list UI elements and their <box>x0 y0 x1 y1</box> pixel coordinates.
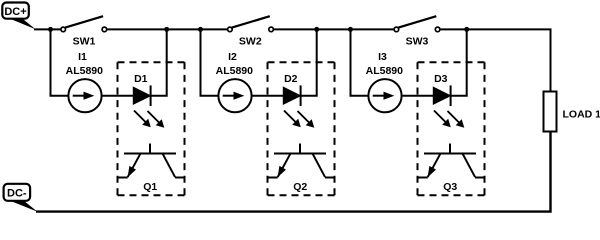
current source I1 AL5890 <box>68 79 101 112</box>
net flag DC- <box>4 184 38 212</box>
svg-text:LOAD 1: LOAD 1 <box>563 109 600 121</box>
svg-text:D2: D2 <box>284 73 298 85</box>
dashed module outline around D2 and Q2 <box>268 62 335 195</box>
svg-text:I1: I1 <box>78 51 87 63</box>
wire D1 cathode up to top rail <box>151 29 167 95</box>
wire from top rail down to I2 input <box>201 29 219 95</box>
svg-text:SW2: SW2 <box>239 36 262 48</box>
transistor Q2 <box>268 144 334 178</box>
svg-text:I3: I3 <box>378 51 387 63</box>
wire top rail: SW1 to SW2 <box>107 28 228 30</box>
junction: rail / I2 input <box>198 27 203 32</box>
svg-text:SW1: SW1 <box>73 36 96 48</box>
svg-text:Q1: Q1 <box>143 181 157 193</box>
switch SW2 <box>228 16 274 32</box>
dashed module outline around D3 and Q3 <box>418 62 485 195</box>
light emission arrows from D1 to Q1 <box>134 111 164 128</box>
svg-text:AL5890: AL5890 <box>216 65 254 77</box>
junction: rail / I3 input <box>348 27 353 32</box>
light emission arrows from D3 to Q3 <box>434 111 464 128</box>
wire I1 output to D1 anode <box>102 95 134 97</box>
junction: D3 cathode / rail <box>464 27 469 32</box>
transistor Q1 <box>118 144 184 178</box>
wire I2 output to D2 anode <box>252 95 284 97</box>
svg-text:Q3: Q3 <box>443 181 457 193</box>
switch SW3 <box>394 16 440 32</box>
junction: DC+ rail / I1 input <box>48 27 53 32</box>
wire LOAD 1 bottom to DC- rail <box>36 132 551 212</box>
LED D3 <box>434 85 451 106</box>
junction: D1 cathode / rail <box>164 27 169 32</box>
current source I2 AL5890 <box>218 79 251 112</box>
transistor Q3 <box>418 144 484 178</box>
dashed module outline around D1 and Q1 <box>118 62 185 195</box>
wire from top rail down to I1 input <box>51 29 69 95</box>
wire I3 output to D3 anode <box>402 95 434 97</box>
wire from top rail down to I3 input <box>351 29 369 95</box>
resistor LOAD 1 <box>544 92 557 132</box>
svg-text:D3: D3 <box>434 73 448 85</box>
wire top rail: SW3 to LOAD 1, down right side <box>440 29 551 91</box>
junction: D2 cathode / rail <box>314 27 319 32</box>
svg-text:DC-: DC- <box>7 188 27 200</box>
current source I3 AL5890 <box>368 79 401 112</box>
wire top rail: DC+ to SW1 <box>34 28 61 30</box>
switch SW1 <box>61 16 107 32</box>
svg-text:AL5890: AL5890 <box>366 65 404 77</box>
wire D3 cathode up to top rail <box>451 29 467 95</box>
svg-text:I2: I2 <box>228 51 237 63</box>
svg-text:Q2: Q2 <box>293 181 307 193</box>
svg-text:DC+: DC+ <box>4 6 26 18</box>
svg-text:D1: D1 <box>134 73 148 85</box>
LED D2 <box>284 85 301 106</box>
LED D1 <box>134 85 151 106</box>
wire D2 cathode up to top rail <box>301 29 317 95</box>
svg-text:AL5890: AL5890 <box>66 65 104 77</box>
svg-text:SW3: SW3 <box>406 36 429 48</box>
wire top rail: SW2 to SW3 <box>274 28 395 30</box>
light emission arrows from D2 to Q2 <box>284 111 314 128</box>
net flag DC+ <box>2 3 35 30</box>
